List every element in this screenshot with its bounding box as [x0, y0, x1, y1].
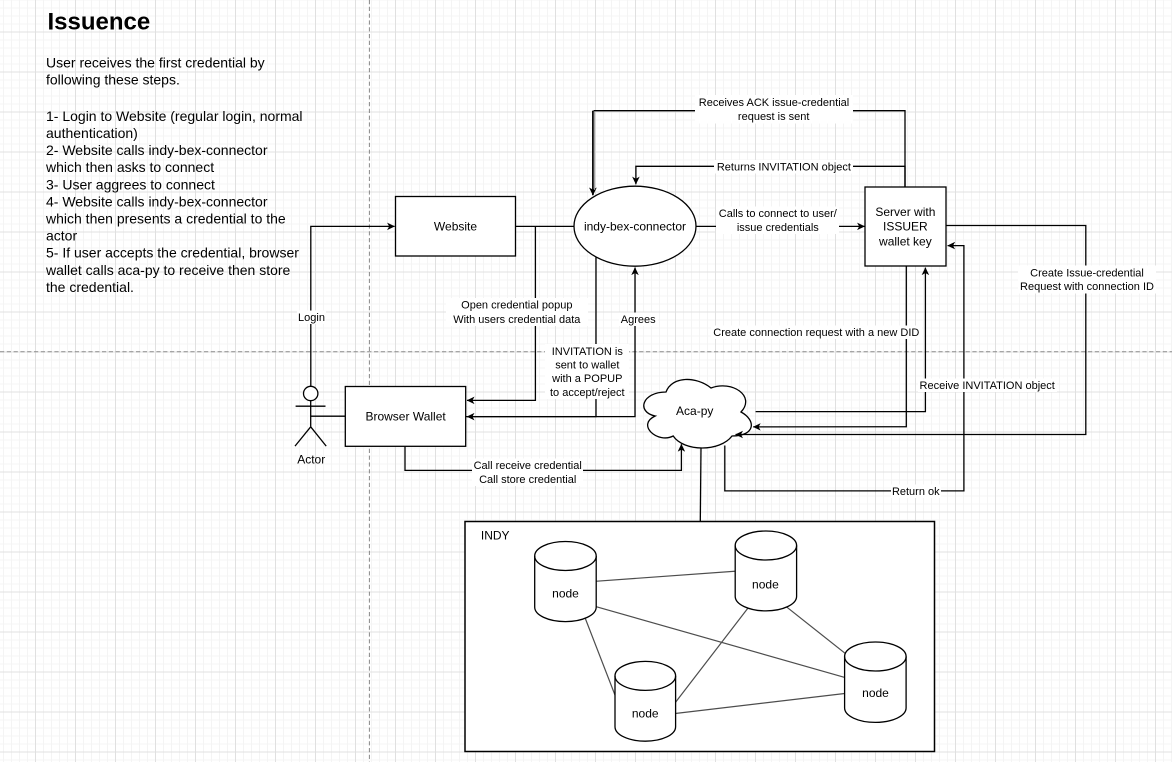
page border dashed horizontal — [0, 351, 1172, 353]
description paragraph — [45, 54, 303, 295]
svg-text:5- If user accepts the credent: 5- If user accepts the credential, brows… — [46, 245, 299, 261]
svg-text:3- User aggrees to connect: 3- User aggrees to connect — [46, 176, 215, 192]
svg-text:which then presents a credenti: which then presents a credential to the — [45, 211, 286, 227]
box INDY — [465, 522, 935, 752]
wire Login: Actor to Website — [311, 226, 395, 386]
svg-text:request is sent: request is sent — [738, 111, 810, 123]
edges — [311, 111, 1086, 522]
svg-text:authentication): authentication) — [46, 125, 138, 141]
INDY mesh edges — [583, 571, 850, 714]
wire INVITATION is sent to wallet — [467, 257, 596, 416]
svg-text:1- Login to Website (regular l: 1- Login to Website (regular login, norm… — [46, 108, 303, 124]
wire node1-node4 — [590, 605, 850, 679]
svg-text:node: node — [632, 706, 659, 720]
svg-text:Create Issue-credential: Create Issue-credential — [1030, 267, 1144, 279]
svg-text:2- Website calls indy-bex-conn: 2- Website calls indy-bex-connector — [46, 142, 268, 158]
svg-text:wallet calls aca-py to receive: wallet calls aca-py to receive then stor… — [45, 262, 291, 278]
svg-text:Actor: Actor — [297, 453, 325, 467]
wire Calls to connect: ellipse to Server — [696, 225, 865, 227]
svg-text:to accept/reject: to accept/reject — [550, 387, 625, 399]
label Return ok — [891, 485, 941, 499]
label Open credential popup — [446, 298, 588, 326]
wire Create connection request: Aca-py to Server bottom — [756, 268, 926, 412]
svg-text:node: node — [862, 686, 889, 700]
actor stick figure — [295, 386, 326, 446]
svg-text:which then asks to connect: which then asks to connect — [45, 159, 214, 175]
box Browser Wallet — [345, 387, 465, 447]
svg-text:Receive INVITATION object: Receive INVITATION object — [920, 380, 1055, 392]
wire Aca-py to INDY — [699, 448, 702, 522]
svg-text:With users credential data: With users credential data — [453, 314, 581, 326]
wire node2-node3 — [672, 604, 751, 707]
wire Call receive credential: Browser Wallet to Aca-py — [405, 444, 681, 470]
svg-text:Call receive credential: Call receive credential — [474, 460, 582, 472]
wire Agrees: Browser Wallet to indy-bex-connector — [466, 268, 635, 417]
cylinder node 1 — [535, 542, 597, 622]
wire Website to indy-bex-connector — [516, 225, 575, 227]
label Receives ACK — [695, 95, 853, 124]
label Login — [297, 311, 326, 325]
svg-text:Calls to connect to user/: Calls to connect to user/ — [719, 208, 838, 220]
svg-text:Returns INVITATION object: Returns INVITATION object — [717, 162, 851, 174]
wire gray shadow of Receives ACK vertical — [594, 111, 596, 190]
svg-text:issue credentials: issue credentials — [737, 222, 819, 234]
cylinder node 2 — [735, 531, 796, 611]
svg-text:wallet key: wallet key — [878, 235, 932, 249]
svg-text:Aca-py: Aca-py — [676, 404, 713, 418]
wire node1-node2 — [590, 571, 740, 582]
svg-text:with a POPUP: with a POPUP — [551, 373, 622, 385]
svg-text:Request with connection ID: Request with connection ID — [1020, 281, 1154, 293]
edge labels — [297, 95, 1156, 498]
svg-text:4- Website calls indy-bex-conn: 4- Website calls indy-bex-connector — [46, 193, 268, 209]
svg-text:Return ok: Return ok — [892, 486, 940, 498]
svg-text:Login: Login — [298, 312, 325, 324]
wire Receives ACK: Server top to ellipse — [594, 111, 905, 187]
svg-text:Receives ACK issue-credential: Receives ACK issue-credential — [699, 97, 849, 109]
svg-text:INDY: INDY — [481, 529, 510, 543]
wire node3-node4 — [672, 693, 850, 714]
svg-text:node: node — [552, 586, 579, 600]
label INVITATION is sent to wallet — [545, 344, 629, 399]
label Call receive/store credential — [472, 459, 583, 487]
svg-text:Create connection request with: Create connection request with a new DID — [713, 327, 919, 339]
label Create connection request — [711, 326, 922, 340]
svg-text:Agrees: Agrees — [621, 314, 656, 326]
svg-text:the credential.: the credential. — [46, 279, 134, 295]
wire Create Issue-credential: Server right to Aca-py — [736, 226, 1086, 435]
svg-text:sent to wallet: sent to wallet — [555, 360, 619, 372]
label Receive INVITATION object — [918, 379, 1057, 393]
cloud Aca-py — [644, 379, 752, 448]
svg-text:following these steps.: following these steps. — [46, 72, 180, 88]
box Website — [396, 197, 516, 257]
label Returns INVITATION object — [714, 160, 853, 174]
svg-text:Call store credential: Call store credential — [479, 474, 576, 486]
page border dashed vertical — [368, 0, 370, 762]
wire Actor to Browser Wallet — [311, 415, 346, 417]
box Server with ISSUER wallet key — [865, 187, 946, 266]
wire Returns INVITATION: Server to ellipse — [636, 166, 905, 187]
svg-text:Browser Wallet: Browser Wallet — [365, 410, 446, 424]
wire Return ok: Aca-py bottom to Server right — [725, 246, 964, 491]
svg-text:Issuence: Issuence — [48, 9, 151, 36]
label Agrees — [619, 313, 658, 327]
wire node2-node4 — [782, 603, 850, 657]
svg-text:node: node — [752, 577, 779, 591]
svg-text:User receives the first creden: User receives the first credential by — [46, 54, 265, 70]
cylinder node 4 — [845, 642, 907, 722]
svg-text:Website: Website — [434, 220, 477, 234]
svg-text:INVITATION is: INVITATION is — [552, 346, 624, 358]
svg-text:actor: actor — [46, 228, 77, 244]
wire Server bottom to Aca-py — [753, 266, 906, 427]
cylinder node 3 — [615, 661, 676, 741]
wire node1-node3 — [583, 613, 620, 709]
label Create Issue-credential Request — [1018, 266, 1156, 294]
svg-text:ISSUER: ISSUER — [883, 220, 928, 234]
svg-text:indy-bex-connector: indy-bex-connector — [584, 220, 686, 234]
ellipse indy-bex-connector — [574, 186, 696, 266]
wire Open credential popup: to Browser Wallet — [467, 226, 535, 400]
svg-text:Open credential popup: Open credential popup — [461, 300, 572, 312]
svg-text:Server with: Server with — [875, 205, 935, 219]
label Calls to connect — [716, 207, 839, 235]
